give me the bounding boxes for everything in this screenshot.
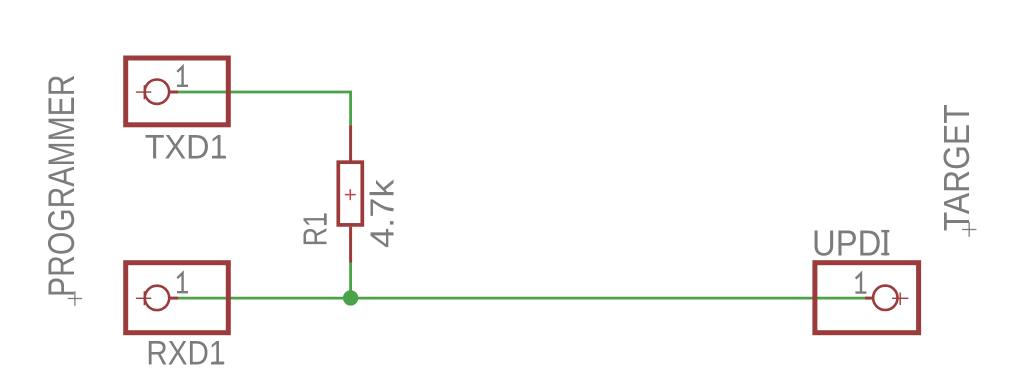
svg-text:PROGRAMMER: PROGRAMMER bbox=[41, 75, 82, 298]
svg-text:TXD1: TXD1 bbox=[145, 129, 228, 167]
svg-text:R1: R1 bbox=[297, 212, 334, 246]
svg-text:4.7k: 4.7k bbox=[363, 179, 400, 248]
svg-text:TARGET: TARGET bbox=[936, 104, 977, 231]
svg-text:RXD1: RXD1 bbox=[146, 334, 225, 372]
svg-text:UPDI: UPDI bbox=[812, 223, 890, 264]
